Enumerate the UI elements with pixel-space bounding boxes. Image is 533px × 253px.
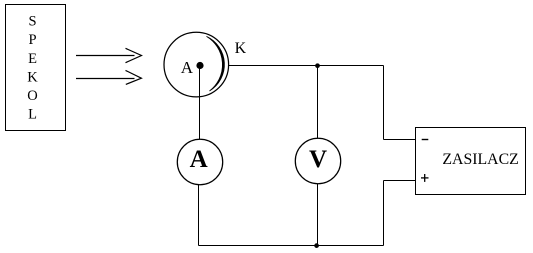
light beam arrow 2 bbox=[76, 70, 141, 84]
svg-text:O: O bbox=[27, 88, 37, 104]
label SPEKOL (vertical letters) bbox=[27, 14, 38, 123]
wire top-right vertical bbox=[383, 66, 385, 140]
svg-text:P: P bbox=[28, 32, 36, 48]
plus terminal mark bbox=[421, 174, 429, 182]
wire bottom rail bbox=[199, 245, 384, 247]
wire voltmeter bottom bbox=[317, 184, 319, 246]
voltmeter V1 bbox=[295, 138, 340, 183]
svg-text:V: V bbox=[309, 146, 327, 173]
svg-text:ZASILACZ: ZASILACZ bbox=[442, 151, 518, 168]
wire bottom-right vertical bbox=[383, 181, 385, 246]
wire cathode to top rail bbox=[229, 65, 384, 67]
wire to plus terminal bbox=[384, 180, 416, 182]
svg-text:L: L bbox=[28, 107, 37, 123]
anode dot A bbox=[196, 62, 203, 69]
wire anode to ammeter bbox=[199, 66, 201, 140]
svg-text:K: K bbox=[27, 69, 38, 85]
svg-text:K: K bbox=[235, 40, 247, 57]
phototube cathode K (crescent) bbox=[207, 36, 225, 91]
wire ammeter to bottom rail bbox=[198, 185, 200, 246]
junction node top bbox=[315, 63, 320, 68]
junction node bottom bbox=[314, 243, 319, 248]
svg-text:S: S bbox=[28, 14, 36, 30]
svg-text:A: A bbox=[190, 146, 208, 173]
power supply box ZASILACZ bbox=[416, 128, 526, 195]
spectrometer box SPEKOL bbox=[6, 5, 66, 131]
ammeter A1 bbox=[177, 139, 222, 184]
light beam arrow 1 bbox=[76, 48, 142, 62]
svg-text:A: A bbox=[181, 58, 194, 77]
wire to minus terminal bbox=[384, 139, 416, 141]
phototube envelope bbox=[164, 32, 229, 97]
wire node to voltmeter top bbox=[317, 66, 319, 139]
minus terminal mark bbox=[422, 139, 429, 141]
svg-text:E: E bbox=[28, 51, 37, 67]
